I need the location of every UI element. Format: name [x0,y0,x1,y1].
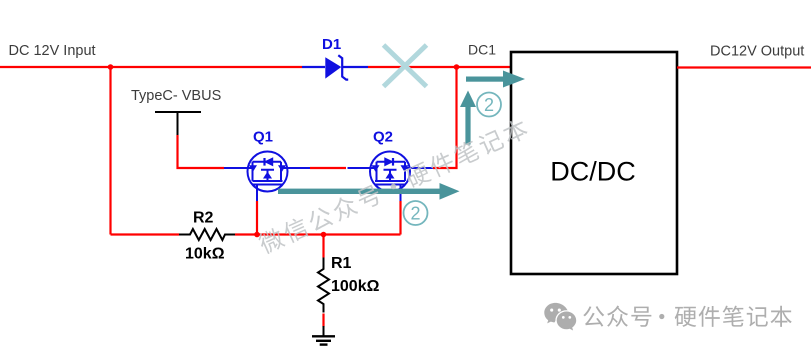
svg-text:2: 2 [410,204,420,224]
svg-text:Q1: Q1 [253,129,273,146]
ground [312,326,335,345]
block: DC/DC converter [511,52,677,274]
svg-text:R2: R2 [193,210,214,227]
node: R1 junction [321,232,327,238]
annotation: X cross over rail [384,45,427,87]
wire: left vertical branch [109,67,111,235]
diode D1 [325,55,348,79]
annotation: circled 2 top [477,93,501,117]
wire: output rail [677,66,811,68]
svg-text:R1: R1 [331,255,352,272]
wire: Q2 gate down [399,201,401,235]
wire: R1 to ground [322,314,324,327]
svg-text:D1: D1 [322,36,341,53]
svg-text:DC12V Output: DC12V Output [710,44,804,60]
wire: bottom rail [111,233,401,235]
annotation: circled 2 bottom [404,201,428,225]
wire: DC 12V input rail [0,66,511,68]
wire: TypeC-VBUS to Q1 [178,135,225,168]
wire: Q1 to Q2 [310,167,346,169]
wire: diode leads [302,66,368,68]
resistor R2 [179,229,235,240]
wire: R1 top [322,235,324,258]
resistor R1 [318,258,329,313]
wire: Q1 gate down [256,201,258,235]
annotation: arrow into DC/DC [466,71,525,88]
transistor Q2 [348,152,434,202]
port: TypeC- VBUS [131,88,221,135]
svg-text:Q2: Q2 [373,129,393,146]
svg-text:2: 2 [484,95,494,115]
annotation: arrow up [460,91,476,145]
svg-text:DC/DC: DC/DC [550,157,636,187]
node: DC1 junction [454,64,460,70]
svg-text:100kΩ: 100kΩ [331,278,380,295]
annotation: long arrow [278,183,460,200]
node: Q1 gate junction [254,232,260,238]
svg-text:10kΩ: 10kΩ [185,246,225,263]
svg-text:DC 12V Input: DC 12V Input [9,43,96,59]
wire: Q2 to DC1 node [433,67,457,168]
svg-text:TypeC- VBUS: TypeC- VBUS [131,88,221,104]
node: input junction [108,64,114,70]
transistor Q1 [224,152,310,202]
svg-text:DC1: DC1 [468,42,496,58]
